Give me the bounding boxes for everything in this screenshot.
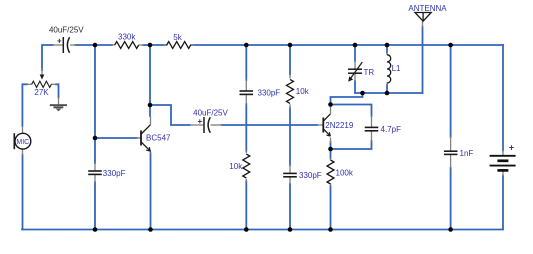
svg-text:BC547: BC547 xyxy=(146,133,171,142)
wire: x246 vertical middle xyxy=(245,104,247,151)
capacitor 4.7pF xyxy=(365,127,379,130)
svg-text:L1: L1 xyxy=(392,64,401,73)
wire: 100k to bottom rail xyxy=(330,186,332,229)
wire: x95 vertical top rail to cap330pF xyxy=(94,45,96,163)
svg-text:330pF: 330pF xyxy=(299,171,322,180)
wire: collector node to 4.7pF top xyxy=(331,105,372,117)
resistor 10k (x290 top) xyxy=(287,79,310,103)
svg-text:1nF: 1nF xyxy=(460,149,474,158)
wire: emitter node to 100k xyxy=(330,149,332,158)
resistor 10k (x246 bottom) xyxy=(229,154,250,178)
wire: x246 vertical top xyxy=(245,45,247,80)
wire: top rail from 5k to right corner xyxy=(191,44,503,46)
wire: cap1 right to node at x95 xyxy=(75,44,112,46)
lead: 5k left xyxy=(164,44,167,46)
node: 2N2219 emitter junction xyxy=(328,147,333,152)
node: top rail x95 xyxy=(93,43,98,48)
inductor L1 xyxy=(387,55,391,83)
lead: 4.7pF bottom xyxy=(371,131,373,142)
svg-text:27K: 27K xyxy=(34,88,49,97)
lead: cap1 left xyxy=(53,44,63,46)
node: bottom rail x330 xyxy=(328,227,333,232)
node: top rail 1nF xyxy=(448,43,453,48)
antenna xyxy=(415,13,431,22)
lead: 10k@246 top xyxy=(245,151,247,154)
capacitor 1nF xyxy=(444,151,458,154)
svg-text:TR: TR xyxy=(364,68,375,77)
resistor 5k xyxy=(167,33,191,49)
svg-text:100k: 100k xyxy=(336,169,354,178)
wire: pot right terminal to ground xyxy=(56,84,59,97)
wire: x246 vertical bottom xyxy=(245,181,247,229)
node: base junction x95 xyxy=(93,136,98,141)
wire: BC547 emitter to bottom rail xyxy=(150,153,152,229)
wire: BC547 base wire xyxy=(95,137,137,139)
node: tank bottom junction xyxy=(360,91,365,96)
wire: 2N2219 emitter lead to node xyxy=(330,142,332,149)
wire: pot left terminal down left edge xyxy=(22,84,27,126)
node: 2N2219 collector junction xyxy=(328,102,333,107)
lead: 10k@290 top xyxy=(289,74,291,79)
lead: antenna stem xyxy=(422,21,424,28)
transistor Q1 BC547 xyxy=(141,125,151,152)
lead: battery top xyxy=(502,150,504,155)
wire: bottom rail xyxy=(22,229,503,231)
potentiometer 27K xyxy=(32,75,52,98)
lead: 100k bottom xyxy=(330,184,332,187)
lead: MIC top xyxy=(22,126,24,134)
svg-text:2N2219: 2N2219 xyxy=(325,121,354,130)
lead: 4.7pF top xyxy=(371,116,373,128)
lead: 330pF@290 bottom xyxy=(289,177,291,185)
capacitor 330pF (x290 bottom) xyxy=(283,173,297,176)
svg-text:5k: 5k xyxy=(173,33,182,42)
lead: 330pF@246 bottom xyxy=(245,95,247,105)
lead: BC547 emitter stub xyxy=(150,151,152,154)
wire: x150 vertical (330k/5k node to collector node) xyxy=(149,45,151,116)
wire: 1nF branch top xyxy=(450,45,452,137)
wire: x290 vertical top xyxy=(289,45,291,75)
node: bottom rail x246 xyxy=(244,227,249,232)
node: bottom rail 1nF xyxy=(448,227,453,232)
wire: right edge down to battery xyxy=(502,45,504,151)
wire: 1nF branch bottom xyxy=(450,168,452,229)
lead: 2N2219 emitter stub xyxy=(330,138,332,144)
node: top rail x150 xyxy=(148,43,153,48)
wire: x95 vertical below cap to bottom rail xyxy=(94,182,96,229)
lead: 5k right xyxy=(191,44,195,46)
svg-text:+: + xyxy=(57,37,62,46)
wire: x290 vertical middle xyxy=(289,108,291,165)
lead: 330pF@95 top xyxy=(94,163,96,171)
svg-text:+: + xyxy=(509,143,514,153)
node: BC547 collector junction xyxy=(148,103,153,108)
svg-text:330pF: 330pF xyxy=(258,89,281,98)
battery B1 xyxy=(490,156,516,171)
lead: pot wiper arrow stem xyxy=(41,68,43,75)
lead: BC547 base stub xyxy=(137,137,141,139)
lead: 330k right xyxy=(139,44,144,46)
lead: 1nF top xyxy=(450,137,452,151)
wire: 2N2219 collector node jog to tank bottom xyxy=(331,93,363,105)
lead: 100k top xyxy=(330,158,332,161)
lead: 330k left xyxy=(112,44,115,46)
lead: 330pF@95 bottom xyxy=(94,175,96,183)
svg-text:10k: 10k xyxy=(229,162,243,171)
resistor 100k xyxy=(327,160,354,184)
node: bottom rail x95 xyxy=(93,227,98,232)
lead: MIC bottom xyxy=(22,149,24,156)
capacitor C1 40uF/25V (input, polarized) xyxy=(63,37,69,53)
svg-text:40uF/25V: 40uF/25V xyxy=(49,26,84,35)
lead: 10k@290 bottom xyxy=(289,104,291,108)
capacitor 330pF (base, x95) xyxy=(88,171,102,174)
lead: TR bottom xyxy=(354,74,356,82)
lead: cap2 right xyxy=(211,124,223,126)
svg-text:330k: 330k xyxy=(118,32,136,41)
node: top rail L1 xyxy=(385,43,390,48)
lead: L1 top xyxy=(386,52,388,55)
wire: jog collector node to mid line xyxy=(150,105,190,125)
lead: 1nF bottom xyxy=(450,155,452,169)
lead: L1 bottom xyxy=(386,83,388,86)
svg-text:10k: 10k xyxy=(296,87,310,96)
lead: 330pF@246 top xyxy=(245,80,247,91)
node: top rail TR xyxy=(353,43,358,48)
node: L1 bottom junction xyxy=(385,91,390,96)
svg-text:ANTENNA: ANTENNA xyxy=(408,4,447,13)
wire: mid line cap2 to 2N2219 base xyxy=(222,124,318,126)
wire: battery bottom to bottom rail xyxy=(502,176,504,229)
svg-text:4.7pF: 4.7pF xyxy=(381,125,402,134)
wire: top rail between 330k and 5k xyxy=(143,44,167,46)
wire: antenna stem xyxy=(422,27,424,93)
node: top rail x246 xyxy=(244,43,249,48)
lead: 10k@246 bottom xyxy=(245,179,247,182)
svg-text:40uF/25V: 40uF/25V xyxy=(193,108,228,117)
wire: pot wiper up to cap1 xyxy=(42,45,53,70)
lead: BC547 collector xyxy=(150,116,152,125)
resistor 330k xyxy=(115,32,139,48)
wire: MIC bottom to bottom rail xyxy=(22,155,24,229)
lead: 2N2219 base stub xyxy=(317,124,323,126)
lead: pot left xyxy=(27,83,32,85)
wire: x290 vertical bottom xyxy=(289,184,291,229)
node: bottom rail x290 xyxy=(288,227,293,232)
wire: TR bottom + tank bottom line to antenna stem xyxy=(355,81,423,93)
lead: battery bottom xyxy=(502,171,504,176)
wire: 4.7pF bottom to emitter node xyxy=(331,141,372,149)
svg-text:+: + xyxy=(197,117,202,126)
node: bottom rail x150 xyxy=(148,227,153,232)
lead: 2N2219 collector stub xyxy=(330,107,332,114)
wire: L1 bottom stub xyxy=(386,85,388,93)
svg-text:330pF: 330pF xyxy=(103,169,126,178)
wire: TR top stub xyxy=(354,45,356,61)
wire: L1 top stub xyxy=(386,45,388,53)
lead: cap2 left xyxy=(190,124,204,126)
lead: pot right xyxy=(51,83,57,85)
lead: 330pF@290 top xyxy=(289,165,291,174)
lead: ground stem xyxy=(58,97,60,104)
lead: cap1 right xyxy=(70,44,76,46)
trimmer capacitor TR xyxy=(348,62,362,79)
lead: TR top xyxy=(354,61,356,69)
microphone MIC xyxy=(14,133,31,149)
capacitor C2 40uF/25V (coupling, polarized) xyxy=(204,117,210,133)
capacitor 330pF (x246 top) xyxy=(240,91,254,94)
svg-text:MIC: MIC xyxy=(16,139,29,146)
ground (pot right terminal) xyxy=(50,104,67,111)
node: top rail x290 xyxy=(288,43,293,48)
transistor Q2 2N2219 xyxy=(323,114,330,136)
